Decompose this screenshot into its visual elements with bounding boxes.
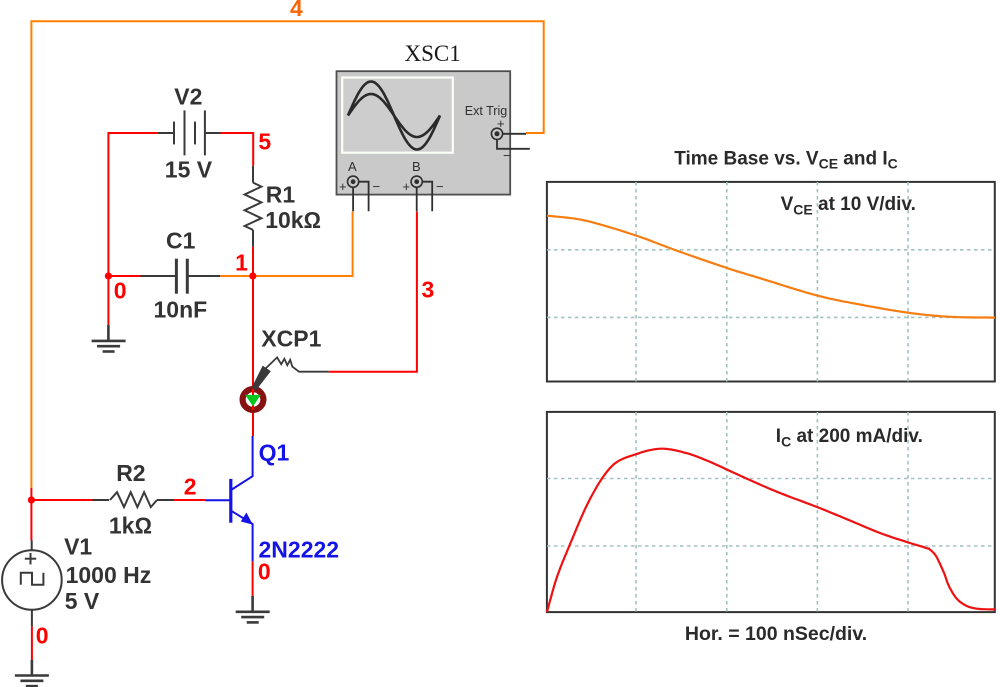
- Q1 emitter arrow: [241, 513, 253, 525]
- ground (node 0): [92, 325, 126, 352]
- svg-text:Hor. = 100 nSec/div.: Hor. = 100 nSec/div.: [685, 623, 867, 645]
- oscilloscope XSC1: [337, 71, 511, 194]
- svg-text:0: 0: [258, 559, 271, 585]
- svg-text:0: 0: [36, 623, 49, 649]
- graph 2 frame (I_C): [547, 412, 995, 612]
- wire V2 left to node 0 branch (red): [108, 133, 157, 276]
- R2 labels: [109, 460, 152, 539]
- ground (V1): [15, 660, 49, 686]
- scope terminal A: [339, 159, 380, 211]
- wire C1 to scope A (orange): [220, 212, 352, 277]
- svg-text:3: 3: [422, 276, 435, 302]
- svg-text:10nF: 10nF: [154, 296, 208, 322]
- wire junction to R2 (red): [31, 499, 92, 501]
- wire R2 to Q1 base (red): [174, 499, 206, 501]
- wire Q1 emitter to ground (red): [252, 561, 254, 595]
- C1 labels: [154, 228, 208, 323]
- svg-text:B: B: [412, 159, 421, 174]
- svg-text:XCP1: XCP1: [261, 325, 321, 351]
- svg-text:15 V: 15 V: [165, 156, 213, 182]
- svg-text:V1: V1: [64, 534, 92, 560]
- node junction 0: [105, 272, 112, 279]
- wire node 0 to C1 (red): [108, 275, 140, 277]
- curve I_C (red): [547, 449, 995, 612]
- svg-text:C1: C1: [166, 228, 196, 254]
- svg-text:IC at 200 mA/div.: IC at 200 mA/div.: [776, 426, 923, 450]
- svg-text:−: −: [373, 179, 381, 194]
- svg-text:1000 Hz: 1000 Hz: [66, 562, 152, 588]
- svg-text:R1: R1: [266, 181, 296, 207]
- wire V1 to ground (red): [31, 626, 33, 660]
- scope terminal Ext Trig: [465, 104, 530, 163]
- svg-text:4: 4: [290, 0, 303, 21]
- svg-text:1: 1: [235, 249, 248, 275]
- wire V2 right to node 5 (red): [221, 133, 254, 166]
- node junction at net 4 / R2: [28, 496, 35, 503]
- wire V1 bottom lead (dark): [31, 610, 33, 627]
- wire node 0 to ground (red): [107, 276, 109, 325]
- wire V1 top (red, junction to V1): [30, 488, 32, 541]
- svg-text:0: 0: [114, 277, 127, 303]
- node junction 1: [249, 272, 256, 279]
- svg-text:10kΩ: 10kΩ: [265, 207, 321, 233]
- svg-text:Time Base vs. VCE and IC: Time Base vs. VCE and IC: [674, 149, 898, 172]
- svg-text:Q1: Q1: [259, 440, 290, 466]
- R1 labels: [265, 181, 321, 233]
- resistor R2: [93, 492, 174, 507]
- svg-text:2: 2: [184, 474, 197, 500]
- wire XCP1 to scope B (red): [329, 212, 417, 372]
- source V1: [2, 550, 62, 610]
- svg-text:+: +: [339, 179, 347, 194]
- svg-text:A: A: [348, 159, 357, 174]
- curve V_CE (orange): [547, 216, 995, 318]
- wire node 1 to XCP1 (red): [252, 276, 254, 436]
- capacitor C1: [141, 259, 221, 294]
- graph 1 frame (V_CE): [547, 182, 995, 382]
- resistor R1: [245, 166, 262, 247]
- ground (emitter): [236, 596, 270, 623]
- current probe XCP1: [243, 357, 329, 410]
- svg-text:−: −: [503, 148, 511, 163]
- wire net 4 (orange, V1+ to Ext Trig): [31, 21, 543, 488]
- svg-text:1kΩ: 1kΩ: [109, 513, 152, 539]
- svg-text:5: 5: [258, 128, 271, 154]
- battery V2: [158, 110, 221, 155]
- Q1 labels: [259, 440, 340, 563]
- V2 labels: [165, 83, 213, 182]
- graph 2 gridlines: [547, 412, 995, 612]
- transistor Q1 2N2222: [205, 436, 253, 561]
- scope terminal B: [403, 159, 444, 211]
- wire R1 to node 1 (red): [252, 247, 254, 276]
- svg-text:−: −: [436, 179, 444, 194]
- svg-text:R2: R2: [116, 460, 145, 486]
- wire V1 top lead (dark): [31, 541, 33, 551]
- svg-text:+: +: [403, 179, 411, 194]
- svg-text:5 V: 5 V: [65, 588, 100, 614]
- svg-text:XSC1: XSC1: [405, 41, 461, 66]
- V1 labels: [64, 534, 151, 615]
- svg-text:V2: V2: [174, 83, 202, 109]
- graph 1 gridlines: [547, 182, 995, 382]
